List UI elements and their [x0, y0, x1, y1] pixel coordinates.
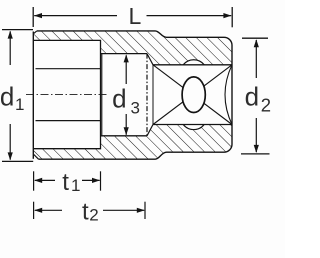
d1 bottom extension line	[2, 160, 33, 162]
t2 right arrow	[103, 209, 144, 211]
centerline dash-dot	[26, 93, 108, 95]
square hole window top edge	[153, 64, 232, 66]
d3 up arrow	[125, 55, 127, 84]
d2 top extension line	[242, 37, 268, 39]
svg-text:t: t	[82, 199, 89, 226]
bottom-left chamfer	[33, 154, 38, 159]
square hole window bottom edge	[153, 124, 232, 126]
bore cavity white	[101, 54, 148, 136]
svg-text:2: 2	[89, 205, 98, 224]
bore left edge double line	[101, 54, 103, 136]
d3 down arrow	[125, 114, 127, 135]
hex across-flats line bottom	[36, 120, 101, 122]
bore end dash-dot vertical	[146, 54, 148, 136]
svg-text:2: 2	[261, 94, 271, 115]
t2 right tick	[144, 202, 146, 219]
right concave arc	[225, 65, 232, 125]
d2 down arrow	[255, 118, 257, 152]
X diagonal TL-BR	[153, 65, 232, 125]
svg-text:1: 1	[71, 176, 80, 195]
d1 top extension line	[2, 29, 33, 31]
hex across-flats line top	[36, 68, 101, 70]
svg-text:d: d	[112, 84, 126, 114]
ball groove bump top	[183, 60, 204, 65]
L left tick	[32, 7, 34, 27]
ball groove bump bottom	[183, 125, 204, 130]
hex cavity outline	[33, 40, 100, 148]
t2 left arrow	[35, 209, 62, 211]
L line left part with arrow	[34, 15, 117, 17]
svg-text:d: d	[245, 82, 259, 112]
hex cavity white	[33, 40, 100, 148]
top-left chamfer	[33, 31, 37, 34]
t1 right arrow	[82, 179, 100, 181]
square-hole window white incl. ball-groove bumps	[153, 60, 232, 130]
X diagonal BL-TR	[153, 65, 232, 125]
t1 left arrow	[35, 179, 55, 181]
socket body outer profile (hatched fill)	[33, 31, 232, 159]
d1 up arrow	[9, 31, 11, 65]
svg-text:t: t	[62, 169, 69, 196]
L line right part with arrow	[147, 15, 232, 17]
chamfer bottom diagonal	[147, 125, 153, 136]
outer profile stroke	[37, 31, 232, 159]
svg-text:d: d	[0, 81, 14, 111]
L right tick	[231, 7, 233, 27]
window left edge	[152, 65, 154, 125]
d2 bottom extension line	[241, 153, 270, 155]
svg-text:1: 1	[15, 95, 24, 114]
t1 right tick	[100, 171, 102, 190]
bore bottom line	[101, 135, 148, 137]
d1 down arrow	[9, 124, 11, 160]
chamfer trapezoid white	[147, 54, 153, 136]
svg-text:L: L	[129, 3, 142, 29]
t2 left tick	[33, 202, 35, 219]
svg-text:3: 3	[131, 99, 140, 118]
left face vertical	[32, 32, 34, 159]
d2 up arrow	[255, 40, 257, 78]
t1 left tick	[33, 171, 35, 190]
chamfer top diagonal	[147, 54, 153, 65]
bore top line	[101, 53, 148, 55]
ball hole ellipse (white fill clips diagonals)	[182, 77, 205, 113]
